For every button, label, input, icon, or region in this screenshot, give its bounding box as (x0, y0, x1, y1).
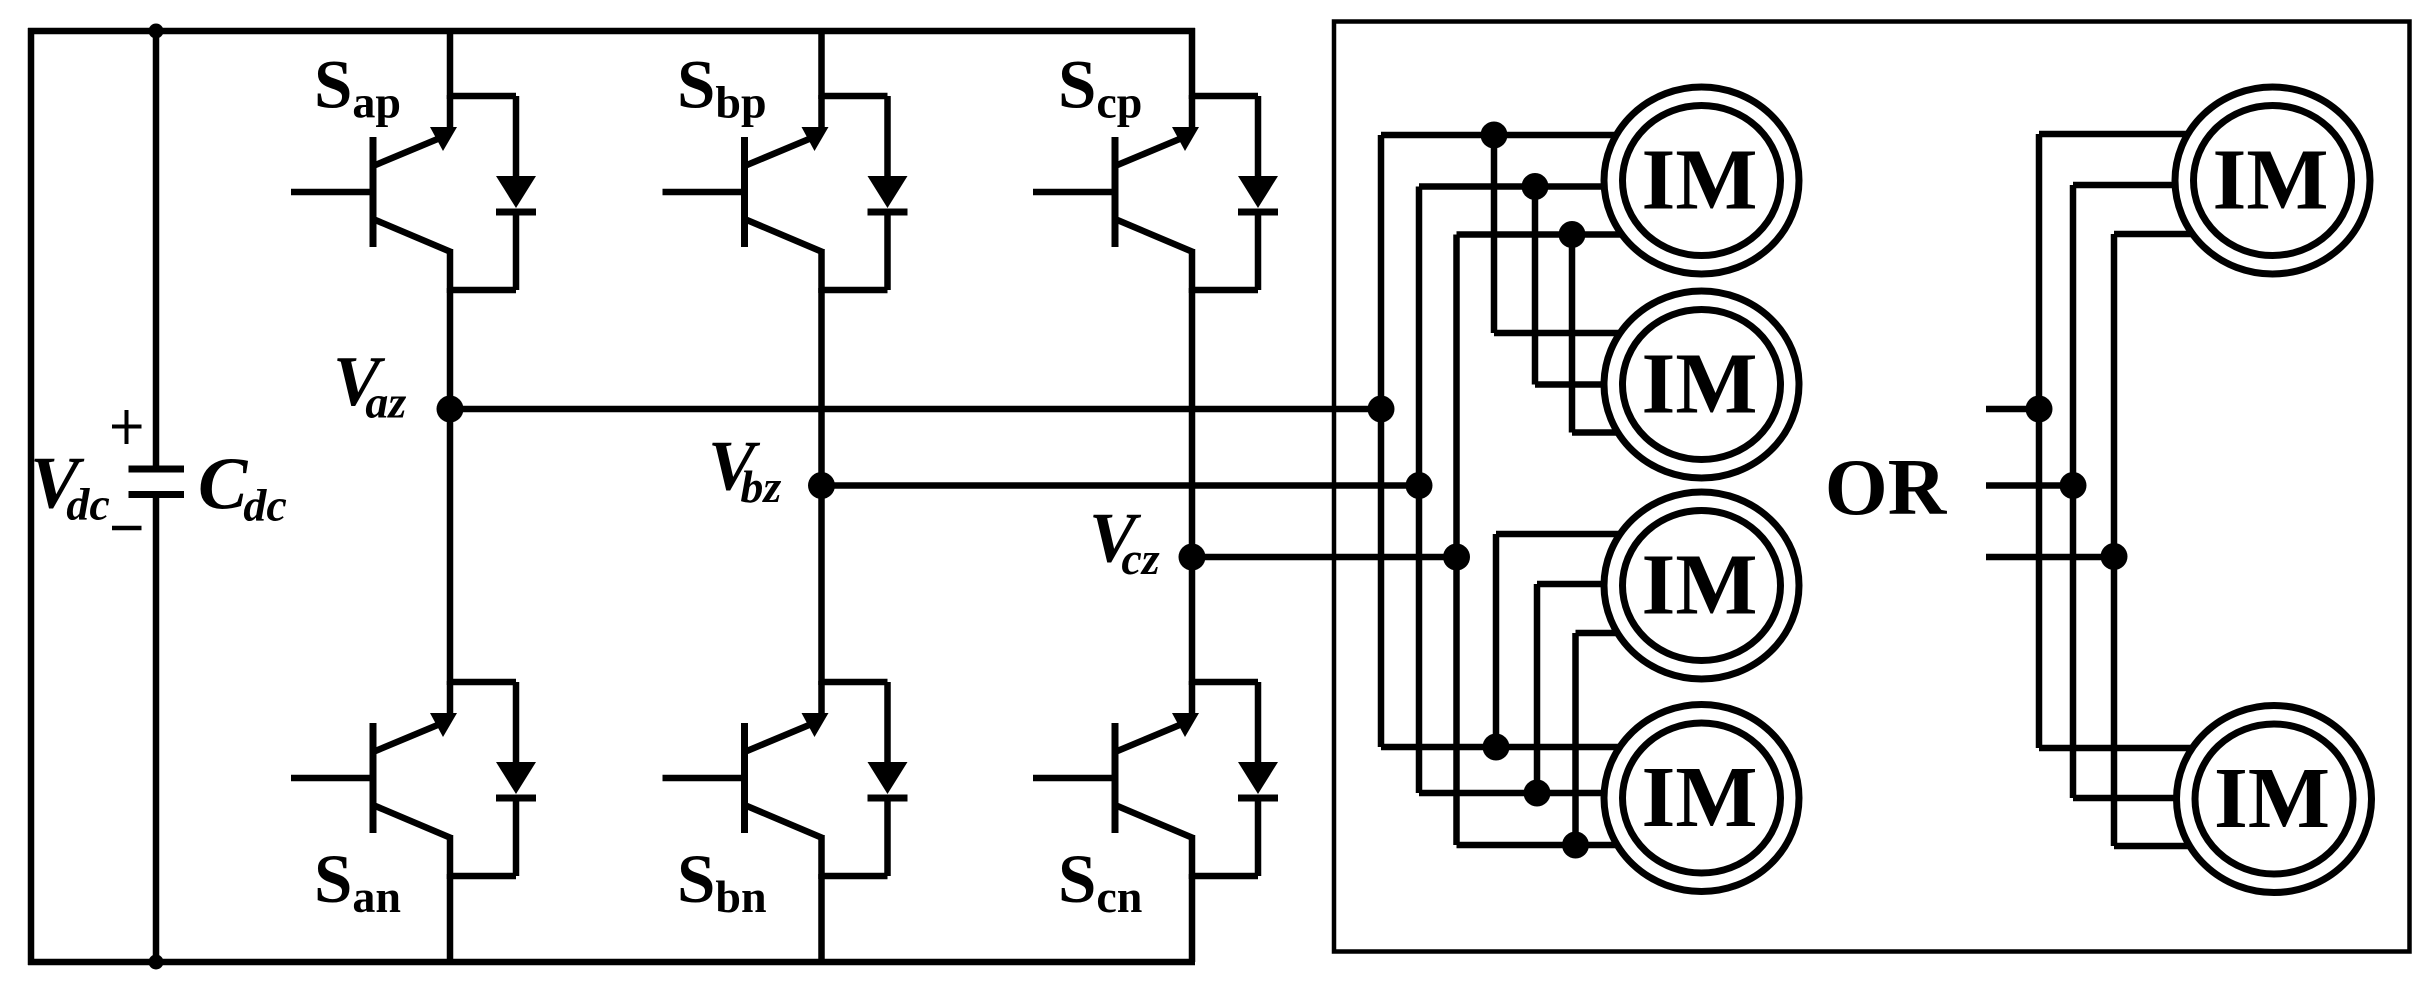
load box frame (1334, 22, 2410, 952)
wire: motor M4 phase B tap (1419, 790, 1660, 797)
svg-text:IM: IM (2214, 749, 2330, 846)
wire: motor M2 phase A feeder (1491, 135, 1498, 333)
node V_cz (junction dot) (1179, 544, 1206, 571)
wire: top rail to S_cp collector (1189, 28, 1196, 99)
wire: top rail to S_bp collector (818, 28, 825, 99)
junction: M1/M2 phase A (1481, 122, 1508, 149)
wire: node V_cz to S_cn collector (1189, 557, 1196, 685)
wire: phase A output V_az (450, 406, 1381, 413)
wire: phase B bus in box (vertical) (1416, 187, 1423, 794)
wire: capacitor branch upper lead (153, 31, 160, 466)
wire: motor M5 phase C tap (2114, 231, 2230, 238)
transistor S_bn (IGBT) (663, 681, 829, 879)
wire: node V_az to S_an collector (447, 409, 454, 685)
diode (antiparallel with S_bp) (819, 96, 908, 290)
diode (antiparallel with S_ap) (447, 96, 536, 290)
wire: node V_bz to S_bn collector (818, 486, 825, 686)
wire: motor M1 phase C tap (1457, 231, 1661, 238)
junction: V_cz wire to phase C bus (1443, 544, 1470, 571)
wire: S_ap emitter to node V_az (447, 288, 454, 409)
transistor S_cn (IGBT) (1033, 681, 1199, 879)
wire: DC source left branch (28, 28, 35, 965)
junction: V_az wire to phase A bus (1368, 396, 1395, 423)
junction: alt stub B (2060, 472, 2087, 499)
wire: motor M4 phase A tap (1381, 744, 1660, 751)
junction: capacitor branch to bottom rail (149, 955, 164, 970)
induction motor M4 (inner circle) (1623, 723, 1781, 873)
induction motor M6 (outer frame) (2177, 706, 2372, 893)
wire: alt phase B bus (vertical) (2070, 185, 2077, 798)
induction motor M5 (outer frame) (2175, 87, 2370, 274)
junction: M1/M2 phase C (1559, 221, 1586, 248)
transistor S_an (IGBT) (291, 681, 457, 879)
svg-text:IM: IM (1642, 131, 1758, 228)
junction: M1/M2 phase B (1522, 173, 1549, 200)
induction motor M1 (outer frame) (1604, 87, 1799, 274)
polarity plus sign (112, 425, 142, 429)
induction motor M2 (inner circle) (1623, 310, 1781, 460)
wire: capacitor branch lower lead (153, 498, 160, 963)
wire: alt phase A stub (1986, 406, 2039, 413)
induction motor M3 (inner circle) (1623, 511, 1781, 661)
wire: motor M6 phase B tap (2073, 795, 2230, 802)
wire: phase A bus in box (vertical) (1378, 135, 1385, 747)
wire: phase C output V_cz (1192, 554, 1457, 561)
wire: motor M1 phase B tap (1419, 183, 1660, 190)
junction: M3/M4 phase B (1524, 780, 1551, 807)
wire: motor M3 phase C feeder (1572, 633, 1579, 845)
junction: alt stub A (2026, 396, 2053, 423)
wire: alt phase C bus (vertical) (2111, 234, 2118, 846)
node V_bz (junction dot) (808, 472, 835, 499)
wire: phase B output V_bz (822, 482, 1420, 489)
wire: motor M6 phase C tap (2114, 843, 2230, 850)
wire: motor M5 phase B tap (2073, 182, 2230, 189)
wire: phase C bus in box (vertical) (1453, 235, 1460, 846)
induction motor M3 (outer frame) (1604, 492, 1799, 679)
induction motor M2 (outer frame) (1604, 291, 1799, 478)
junction: capacitor branch to top rail (149, 24, 164, 39)
junction: alt stub C (2101, 543, 2128, 570)
wire: motor M3 phase A feeder (1493, 534, 1500, 747)
svg-text:OR: OR (1825, 442, 1948, 532)
wire: motor M5 phase A tap (2039, 131, 2230, 138)
induction motor M5 (inner circle) (2194, 106, 2352, 256)
wire: motor M6 phase A tap (2039, 745, 2230, 752)
induction motor M6 (inner circle) (2195, 724, 2353, 874)
wire: motor M3 phase B feeder (1534, 584, 1541, 793)
diode (antiparallel with S_bn) (819, 682, 908, 876)
transistor S_bp (IGBT) (663, 95, 829, 293)
transistor S_cp (IGBT) (1033, 95, 1199, 293)
wire: motor M2 phase B feeder (1532, 187, 1539, 385)
diode (antiparallel with S_cp) (1189, 96, 1278, 290)
induction motor M4 (outer frame) (1604, 705, 1799, 892)
polarity minus sign (112, 526, 142, 531)
wire: top rail to S_ap collector (447, 28, 454, 99)
junction: M3/M4 phase C (1562, 832, 1589, 859)
wire: alt phase B stub (1986, 482, 2073, 489)
induction motor M1 (inner circle) (1623, 106, 1781, 256)
wire: S_cp emitter to node V_cz (1189, 288, 1196, 557)
junction: M3/M4 phase A (1483, 734, 1510, 761)
wire: motor M4 phase C tap (1457, 842, 1661, 849)
wire: alt phase A bus (vertical) (2036, 134, 2043, 748)
wire: motor M1 phase A tap (1381, 132, 1660, 139)
svg-text:IM: IM (2213, 131, 2329, 228)
wire: S_an emitter to bottom rail (447, 874, 454, 962)
wire: S_bn emitter to bottom rail (818, 874, 825, 962)
wire: negative DC rail (bottom) (28, 959, 1195, 966)
capacitor C_dc plates (129, 466, 185, 473)
diode (antiparallel with S_cn) (1189, 682, 1278, 876)
junction: V_bz wire to phase B bus (1406, 472, 1433, 499)
wire: motor M2 phase C feeder (1569, 235, 1576, 433)
svg-text:IM: IM (1642, 536, 1758, 633)
svg-text:IM: IM (1642, 748, 1758, 845)
wire: S_cn emitter to bottom rail (1189, 874, 1196, 962)
wire: S_bp emitter to node V_bz (818, 288, 825, 486)
node V_az (junction dot) (437, 396, 464, 423)
diode (antiparallel with S_an) (447, 682, 536, 876)
wire: positive DC rail (top) (28, 28, 1195, 35)
wire: alt phase C stub (1986, 554, 2114, 561)
transistor S_ap (IGBT) (291, 95, 457, 293)
svg-text:IM: IM (1642, 335, 1758, 432)
